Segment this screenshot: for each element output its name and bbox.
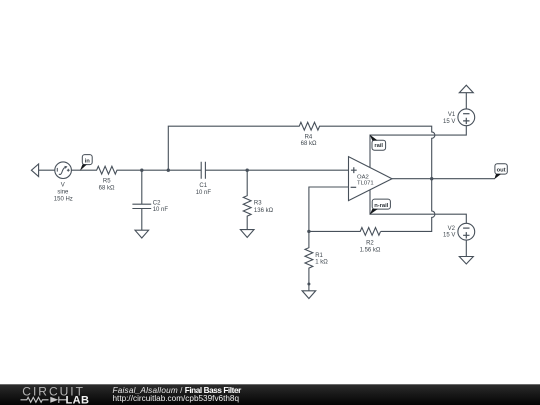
- svg-text:C2: C2: [153, 200, 161, 206]
- svg-text:R5: R5: [103, 179, 111, 185]
- svg-text:C1: C1: [199, 183, 207, 189]
- svg-text:136 kΩ: 136 kΩ: [254, 208, 274, 214]
- svg-text:1.56 kΩ: 1.56 kΩ: [360, 247, 381, 253]
- svg-text:out: out: [497, 167, 506, 173]
- svg-text:15 V: 15 V: [443, 233, 455, 239]
- svg-text:68 kΩ: 68 kΩ: [301, 141, 317, 147]
- svg-text:150 Hz: 150 Hz: [54, 196, 73, 202]
- svg-text:TL071: TL071: [357, 181, 374, 187]
- svg-text:68 kΩ: 68 kΩ: [99, 185, 115, 191]
- svg-text:1 kΩ: 1 kΩ: [315, 260, 328, 266]
- svg-text:V: V: [61, 183, 65, 189]
- svg-text:R3: R3: [254, 201, 262, 207]
- svg-text:R1: R1: [315, 253, 323, 259]
- svg-text:10 nF: 10 nF: [196, 190, 212, 196]
- svg-text:OA2: OA2: [357, 174, 369, 180]
- svg-text:sine: sine: [57, 189, 69, 195]
- svg-text:http://circuitlab.com/cpb539fv: http://circuitlab.com/cpb539fv6th8q: [113, 394, 240, 403]
- svg-text:R4: R4: [305, 134, 313, 140]
- svg-text:in: in: [85, 158, 91, 164]
- svg-text:n-rail: n-rail: [374, 203, 389, 209]
- svg-text:LAB: LAB: [66, 394, 90, 405]
- svg-text:V1: V1: [448, 112, 456, 118]
- svg-text:10 nF: 10 nF: [153, 207, 169, 213]
- svg-text:rail: rail: [374, 143, 383, 149]
- svg-text:V2: V2: [448, 226, 456, 232]
- svg-text:15 V: 15 V: [443, 119, 455, 125]
- svg-text:R2: R2: [366, 240, 374, 246]
